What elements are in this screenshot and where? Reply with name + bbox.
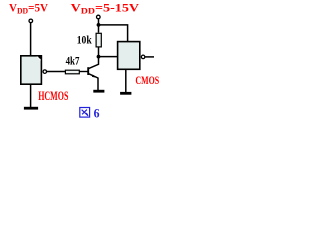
ground under U1 xyxy=(24,107,38,110)
svg-text:10k: 10k xyxy=(77,34,92,47)
svg-text:HCMOS: HCMOS xyxy=(38,88,68,103)
svg-text:VDD=5V: VDD=5V xyxy=(9,1,48,16)
transistor Q1 emitter with arrow xyxy=(89,74,98,78)
terminal T2 (VDD=5-15V supply) xyxy=(97,15,101,19)
svg-text:4k7: 4k7 xyxy=(66,55,80,68)
svg-text:6: 6 xyxy=(94,105,100,120)
inverter bubble U2 output xyxy=(141,55,145,59)
corner fill chamfer on U1 xyxy=(36,57,40,61)
wire R2 to Q1 base xyxy=(80,71,89,73)
net label VDD=5V xyxy=(9,1,48,16)
svg-text:CMOS: CMOS xyxy=(135,75,159,87)
op-amp U2 CMOS gate body xyxy=(118,42,140,70)
corner mark on U1 xyxy=(39,56,41,58)
wire U1 output to R2 xyxy=(47,71,65,73)
wire node A to R1 top xyxy=(98,25,100,33)
wire U2 output xyxy=(145,56,154,58)
transistor Q1 collector xyxy=(89,57,99,69)
emitter arrowhead xyxy=(92,75,97,78)
node A junction dot xyxy=(97,23,101,27)
ground under Q1 xyxy=(93,90,104,93)
wire node A to U2 VDD xyxy=(99,25,128,42)
wire U2 bottom to ground xyxy=(125,69,127,92)
terminal T1 (VDD=5V supply) xyxy=(29,19,33,23)
wire U1 bottom to ground xyxy=(30,84,32,107)
wire R1 bottom to node B xyxy=(98,47,100,56)
svg-text:VDD=5-15V: VDD=5-15V xyxy=(71,1,140,16)
resistor R2 4k7 body xyxy=(65,70,79,74)
node B junction dot xyxy=(97,55,101,59)
ground under U2 xyxy=(120,92,131,95)
op-amp U1 HCMOS gate body xyxy=(21,56,42,84)
wire T1 to U1 VDD pin xyxy=(30,23,32,56)
caption 图 glyph xyxy=(80,108,90,118)
inverter bubble U1 output xyxy=(43,70,47,74)
wire Q1 emitter down xyxy=(97,78,99,91)
wire node B to U2 input xyxy=(99,56,118,58)
transistor Q1 base bar xyxy=(87,67,89,75)
resistor R1 10k body xyxy=(96,33,101,47)
net label VDD=5-15V xyxy=(71,1,140,16)
wire T2 down to node A xyxy=(98,19,100,25)
